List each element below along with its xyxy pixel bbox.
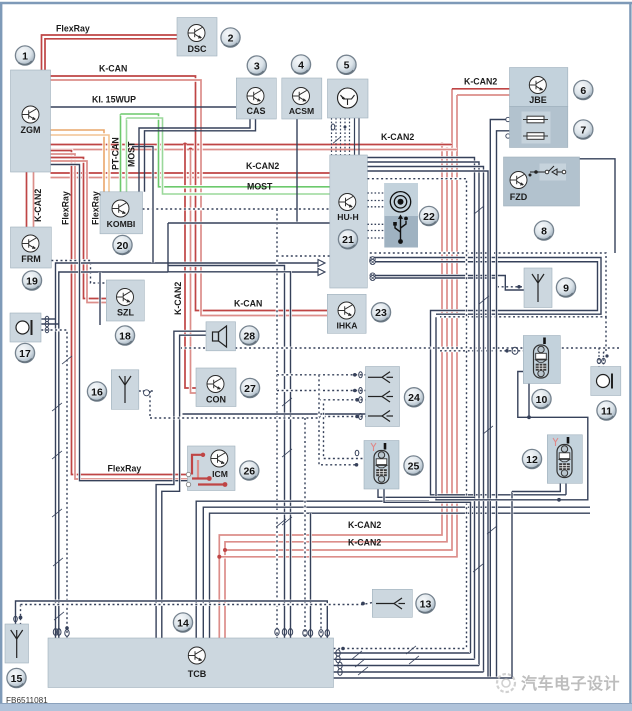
svg-text:SZL: SZL — [117, 308, 135, 318]
svg-text:15: 15 — [11, 673, 23, 685]
svg-text:19: 19 — [26, 275, 38, 287]
svg-text:ACSM: ACSM — [289, 106, 314, 116]
svg-text:K-CAN: K-CAN — [234, 299, 262, 309]
svg-text:13: 13 — [420, 598, 432, 610]
svg-text:24: 24 — [408, 392, 420, 404]
svg-text:KI. 15WUP: KI. 15WUP — [92, 95, 136, 105]
svg-text:1: 1 — [22, 50, 28, 62]
svg-text:K-CAN2: K-CAN2 — [246, 161, 279, 171]
svg-text:17: 17 — [19, 348, 31, 360]
svg-text:K-CAN2: K-CAN2 — [381, 132, 414, 142]
svg-text:11: 11 — [601, 405, 612, 417]
svg-text:FlexRay: FlexRay — [56, 24, 90, 34]
svg-text:14: 14 — [177, 617, 189, 629]
svg-text:26: 26 — [243, 465, 255, 477]
svg-text:7: 7 — [580, 124, 586, 136]
svg-text:3: 3 — [254, 60, 260, 72]
svg-text:25: 25 — [408, 460, 420, 472]
svg-text:K-CAN: K-CAN — [99, 64, 127, 74]
svg-text:20: 20 — [117, 240, 129, 252]
svg-text:ZGM: ZGM — [21, 125, 41, 135]
svg-text:HU-H: HU-H — [337, 212, 358, 222]
svg-text:K-CAN2: K-CAN2 — [348, 538, 381, 548]
svg-text:23: 23 — [375, 307, 387, 319]
svg-text:21: 21 — [342, 234, 354, 246]
svg-text:DSC: DSC — [187, 44, 207, 54]
svg-text:PT-CAN: PT-CAN — [111, 137, 121, 170]
svg-text:FlexRay: FlexRay — [61, 191, 71, 225]
svg-text:FlexRay: FlexRay — [108, 464, 142, 474]
svg-text:18: 18 — [119, 330, 131, 342]
svg-text:汽车电子设计: 汽车电子设计 — [521, 674, 620, 693]
svg-text:27: 27 — [244, 383, 256, 395]
svg-text:ICM: ICM — [212, 469, 228, 479]
svg-text:5: 5 — [344, 60, 350, 72]
svg-text:22: 22 — [423, 211, 435, 223]
svg-text:JBE: JBE — [529, 95, 547, 105]
svg-text:K-CAN2: K-CAN2 — [33, 189, 43, 222]
svg-text:2: 2 — [228, 32, 234, 44]
svg-text:10: 10 — [536, 394, 548, 406]
svg-text:K-CAN2: K-CAN2 — [173, 282, 183, 315]
svg-text:CAS: CAS — [246, 106, 265, 116]
svg-text:MOST: MOST — [127, 141, 137, 167]
svg-text:CON: CON — [206, 395, 226, 405]
svg-text:FlexRay: FlexRay — [91, 191, 101, 225]
svg-text:9: 9 — [563, 282, 569, 294]
svg-text:6: 6 — [580, 85, 586, 97]
svg-text:FRM: FRM — [21, 254, 41, 264]
svg-text:KOMBI: KOMBI — [107, 219, 136, 229]
svg-text:MOST: MOST — [247, 182, 273, 192]
svg-text:K-CAN2: K-CAN2 — [464, 77, 497, 87]
svg-text:28: 28 — [243, 330, 255, 342]
svg-text:K-CAN2: K-CAN2 — [348, 520, 381, 530]
svg-text:16: 16 — [91, 386, 103, 398]
svg-text:12: 12 — [526, 454, 538, 466]
svg-text:4: 4 — [298, 59, 304, 71]
svg-text:FZD: FZD — [510, 192, 528, 202]
svg-text:IHKA: IHKA — [336, 321, 357, 331]
svg-text:8: 8 — [541, 225, 547, 237]
svg-text:TCB: TCB — [188, 669, 207, 679]
